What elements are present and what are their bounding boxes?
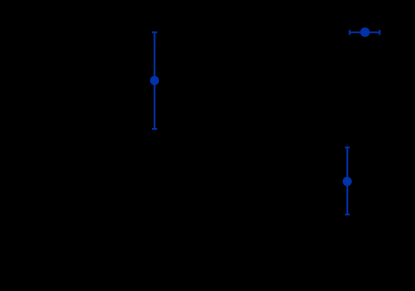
P3 vertical error line [346,148,348,215]
errorbar point P1 (vertical) [150,32,159,129]
errorbar point P3 (vertical) [343,148,352,215]
P2 left cap [349,30,351,35]
P2 right cap [379,30,381,35]
errorbar point P2 (horizontal) [350,27,380,37]
P3 marker [343,177,352,186]
P1 top cap [152,31,157,33]
P1 bottom cap [152,128,157,130]
P2 horizontal error line [350,31,380,33]
P2 marker [360,27,370,37]
P1 marker [150,76,159,85]
P3 bottom cap [345,214,350,216]
P3 top cap [345,147,350,149]
P1 vertical error line [154,32,156,129]
